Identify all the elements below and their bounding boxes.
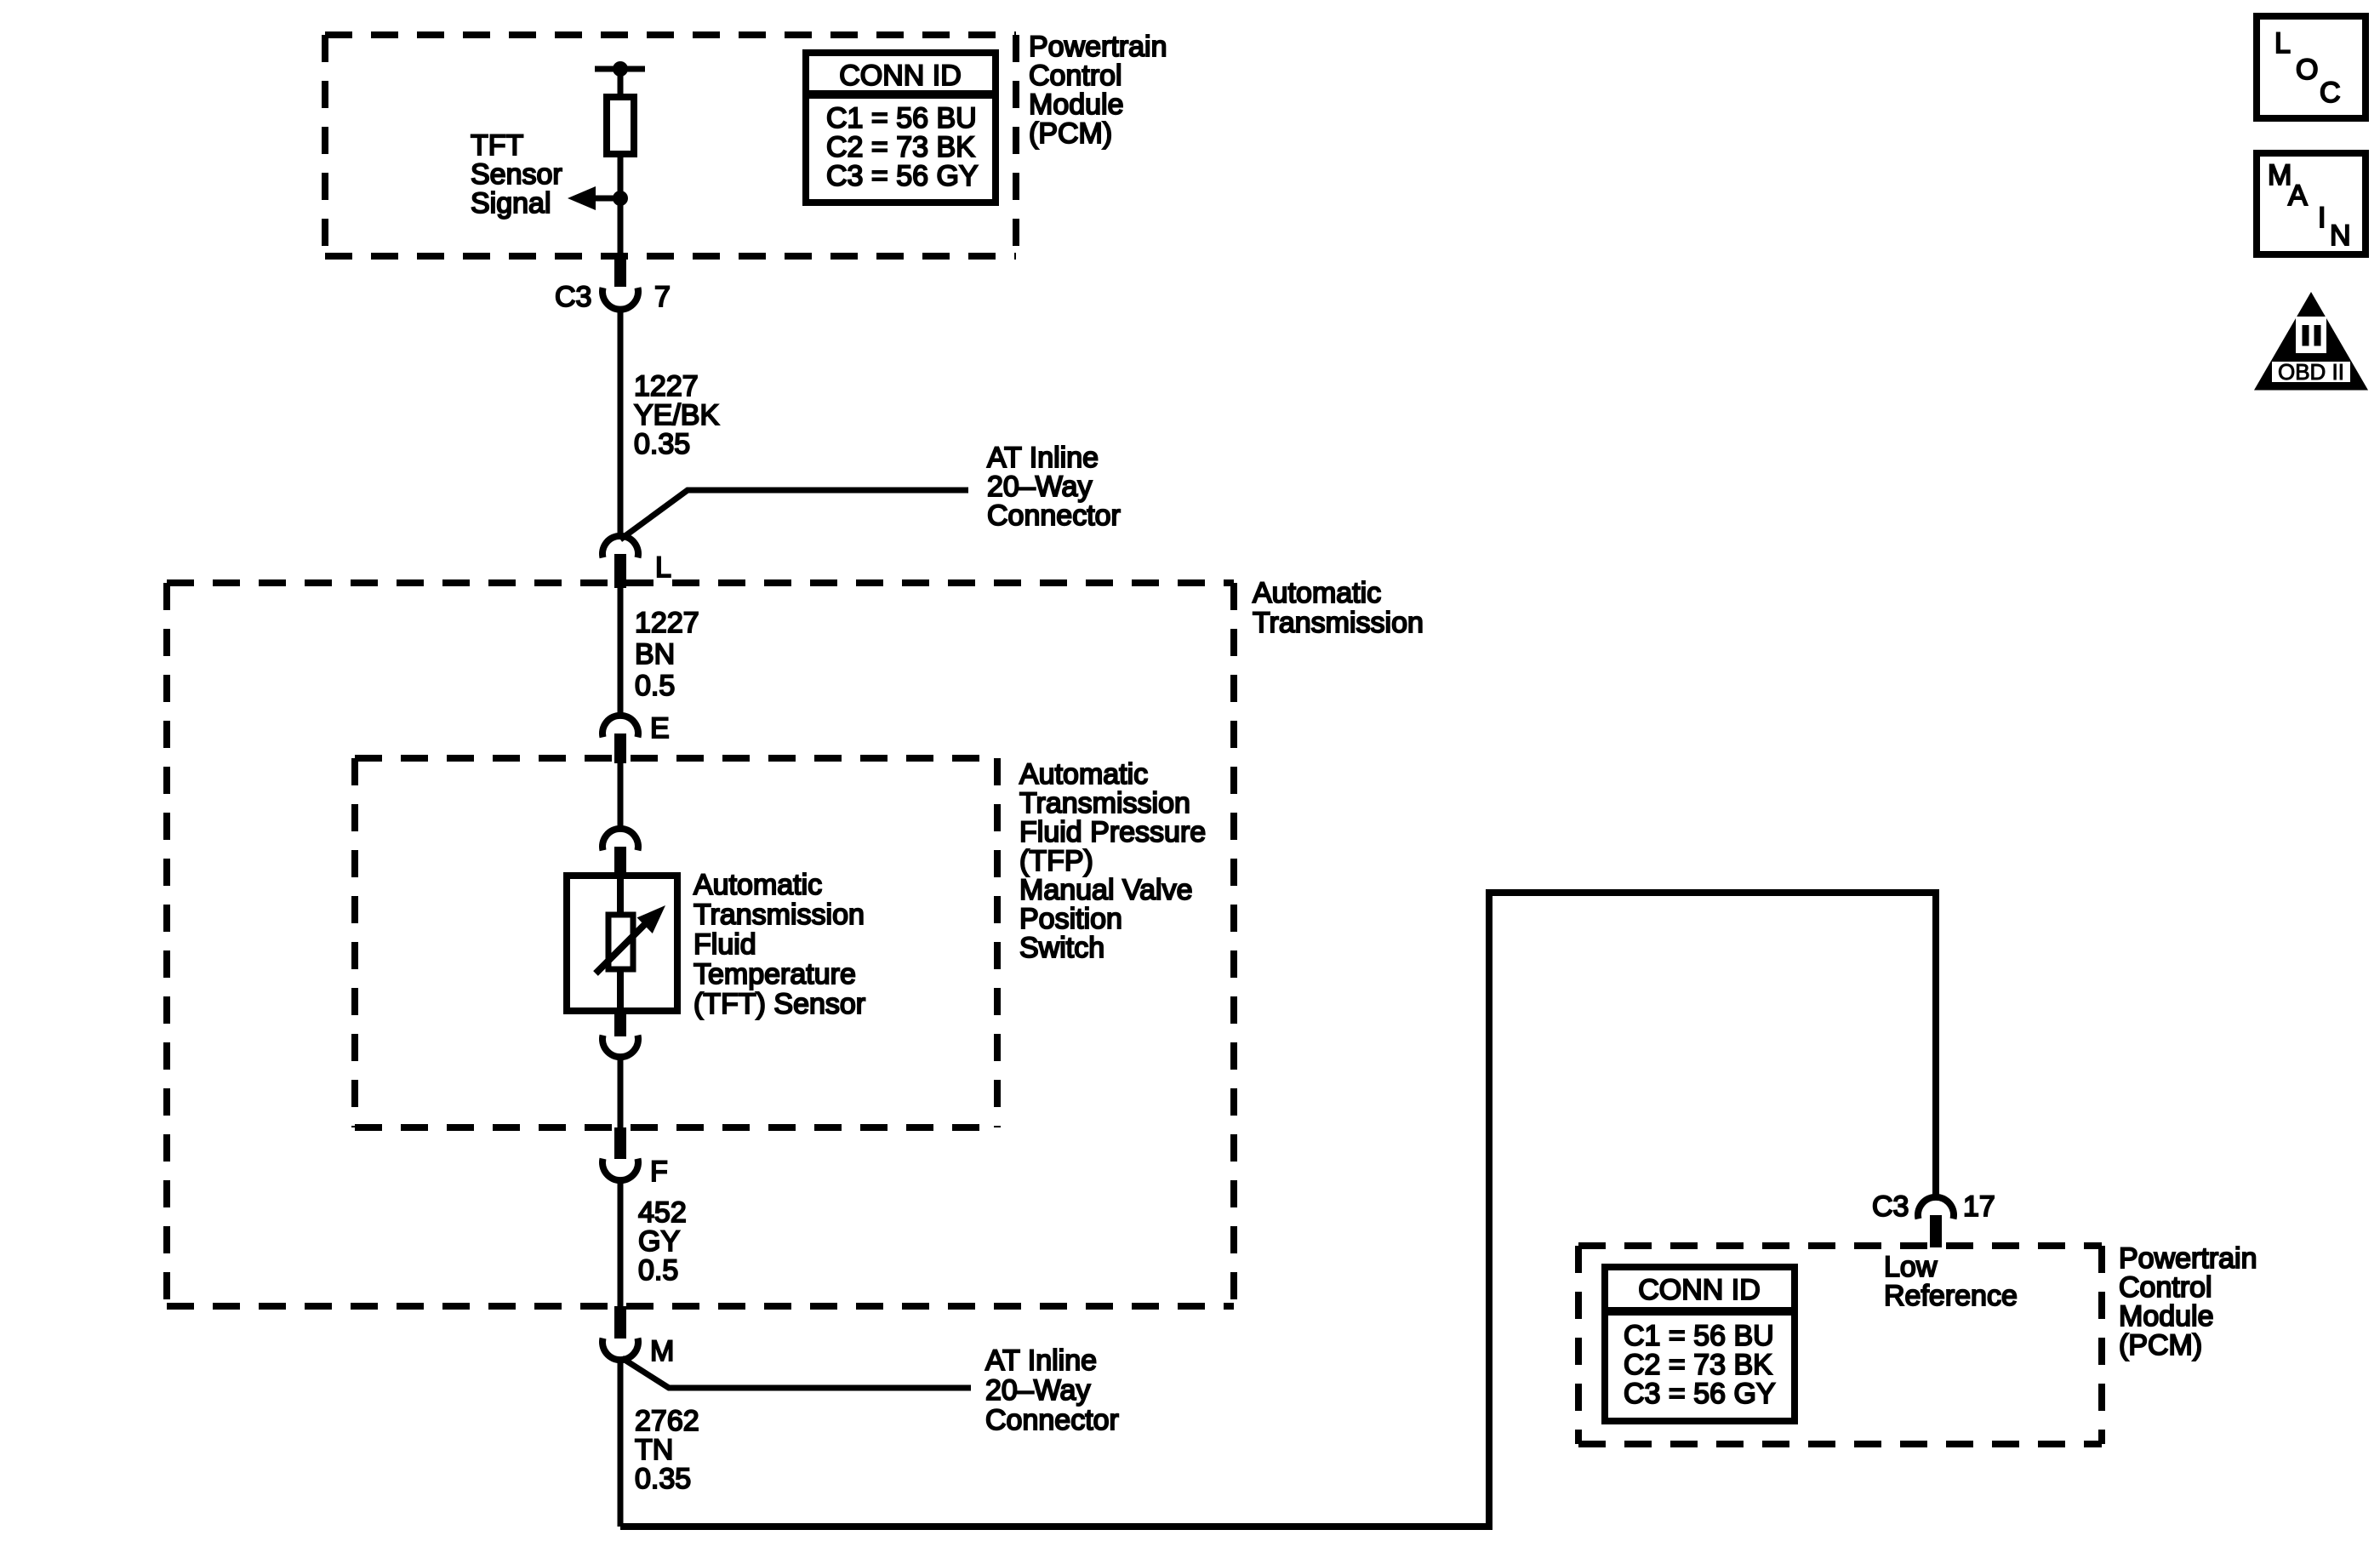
wire TFT sensor signal branch [592, 196, 620, 202]
svg-text:CONN ID: CONN ID [1638, 1274, 1761, 1306]
connector L (pin) [614, 554, 626, 588]
svg-text:Powertrain: Powertrain [1029, 31, 1167, 63]
label wire 452 GY 0.5 [638, 1196, 687, 1287]
thermistor element R [608, 915, 633, 969]
sensor terminal arc (top) [602, 829, 638, 851]
svg-text:Fluid: Fluid [693, 928, 756, 961]
svg-text:Powertrain: Powertrain [2119, 1242, 2257, 1275]
wire to F [618, 1058, 624, 1127]
svg-text:Module: Module [1029, 88, 1124, 121]
sensor terminal pin (top) [614, 847, 626, 877]
connector C3 pin 17 (pin) [1930, 1215, 1942, 1247]
svg-text:(TFP): (TFP) [1019, 845, 1093, 877]
sensor terminal pin (bottom) [614, 1011, 626, 1036]
svg-text:0.35: 0.35 [635, 1463, 691, 1495]
svg-text:AT Inline: AT Inline [985, 1344, 1097, 1377]
label wire 1227 YE/BK 0.35 [634, 370, 719, 460]
svg-text:1227: 1227 [634, 370, 699, 402]
svg-text:I: I [2318, 202, 2326, 234]
node junction dot [613, 191, 628, 206]
svg-text:Fluid Pressure: Fluid Pressure [1019, 816, 1206, 848]
svg-text:M: M [650, 1335, 674, 1367]
label wire 1227 BN 0.5 [635, 607, 699, 702]
connector E (arc dome) [602, 716, 638, 738]
PCM box bottom-right (dashed) [1578, 1246, 2102, 1444]
svg-text:Manual Valve: Manual Valve [1019, 874, 1193, 906]
svg-text:O: O [2296, 54, 2318, 86]
node junction dot [613, 61, 628, 77]
svg-text:A: A [2288, 180, 2308, 212]
arrowhead TFT sensor signal [568, 186, 596, 210]
svg-text:17: 17 [1963, 1190, 1995, 1223]
wire inside sensor [617, 876, 624, 915]
wire bottom run [620, 893, 1936, 1527]
svg-text:C3 = 56 GY: C3 = 56 GY [1624, 1378, 1776, 1410]
svg-text:C3: C3 [555, 281, 591, 313]
svg-text:C2 = 73 BK: C2 = 73 BK [1624, 1349, 1772, 1381]
svg-text:Connector: Connector [987, 499, 1121, 532]
svg-text:C2 = 73 BK: C2 = 73 BK [826, 131, 975, 163]
connector L (arc dome) [602, 536, 638, 558]
label Powertrain Control Module (PCM) bottom [2119, 1242, 2257, 1361]
label AT Inline 20-Way Connector (bottom) [985, 1344, 1119, 1436]
connector C3 pin 17 (arc dome) [1918, 1197, 1954, 1219]
label TFT Sensor Signal [471, 129, 562, 220]
svg-text:Position: Position [1019, 903, 1122, 935]
svg-text:GY: GY [638, 1225, 680, 1258]
svg-text:Control: Control [1029, 60, 1122, 92]
svg-text:AT Inline: AT Inline [987, 442, 1099, 474]
resistor (PCM pull-up) [607, 97, 634, 154]
CONN ID table bottom-right [1605, 1267, 1795, 1421]
svg-text:Transmission: Transmission [1019, 787, 1190, 819]
svg-text:Automatic: Automatic [1019, 758, 1148, 791]
svg-text:C: C [2320, 77, 2341, 109]
svg-text:BN: BN [635, 638, 675, 671]
svg-text:1227: 1227 [635, 607, 699, 639]
svg-text:Transmission: Transmission [693, 899, 865, 931]
label AT Inline 20-Way Connector (top) [987, 442, 1121, 532]
svg-text:TN: TN [635, 1434, 673, 1466]
connector C3 pin 7 (pin) [614, 256, 626, 287]
PCM box top-left (dashed) [325, 35, 1016, 256]
svg-text:(TFT) Sensor: (TFT) Sensor [693, 988, 865, 1020]
svg-text:TFT: TFT [471, 129, 523, 162]
label Low Reference [1884, 1251, 2018, 1312]
svg-text:Automatic: Automatic [1253, 577, 1381, 609]
LOC legend box [2257, 16, 2366, 118]
OBD II symbol [2254, 292, 2368, 391]
svg-text:C1 = 56 BU: C1 = 56 BU [826, 102, 977, 134]
svg-text:Low: Low [1884, 1251, 1938, 1283]
svg-text:0.35: 0.35 [634, 428, 690, 460]
wire 2762 TN below M [618, 1361, 624, 1527]
svg-text:CONN ID: CONN ID [839, 60, 962, 92]
TFT sensor box [567, 876, 677, 1011]
svg-text:Reference: Reference [1884, 1280, 2018, 1312]
wire into TFT sensor [618, 763, 624, 826]
svg-text:Connector: Connector [985, 1404, 1119, 1436]
connector C3 pin 7 (arc) [602, 288, 638, 310]
leader line AT inline connector (top) [620, 490, 968, 539]
connector F (arc) [602, 1159, 638, 1181]
label TFP Manual Valve Position Switch [1019, 758, 1206, 964]
wire 452 GY [618, 1181, 624, 1306]
wire [618, 154, 624, 256]
svg-text:C3: C3 [1872, 1190, 1909, 1223]
connector F (pin) [614, 1127, 626, 1159]
connector M (pin) [614, 1306, 626, 1339]
svg-text:F: F [650, 1156, 668, 1188]
svg-text:L: L [655, 551, 671, 584]
Automatic Transmission box (dashed) [167, 583, 1234, 1306]
svg-text:0.5: 0.5 [638, 1254, 678, 1287]
svg-text:Temperature: Temperature [693, 958, 856, 990]
svg-text:20–Way: 20–Way [985, 1374, 1090, 1407]
wire 1227 BN [618, 588, 624, 713]
connector M (arc) [602, 1339, 638, 1361]
wire 1227 YE/BK [618, 308, 624, 539]
svg-text:N: N [2330, 220, 2351, 252]
svg-text:Control: Control [2119, 1271, 2212, 1304]
CONN ID table top-left [806, 53, 996, 203]
svg-text:Sensor: Sensor [471, 158, 562, 191]
connector E (pin) [614, 733, 626, 763]
svg-text:(PCM): (PCM) [1029, 117, 1112, 150]
svg-text:OBD II: OBD II [2278, 359, 2344, 385]
svg-text:Signal: Signal [471, 187, 551, 220]
svg-text:2762: 2762 [635, 1405, 699, 1437]
MAIN legend box [2257, 153, 2366, 254]
label Powertrain Control Module (PCM) top [1029, 31, 1167, 150]
svg-text:Module: Module [2119, 1300, 2214, 1333]
svg-text:20–Way: 20–Way [987, 471, 1092, 503]
svg-text:C3 = 56 GY: C3 = 56 GY [826, 160, 979, 192]
svg-text:Switch: Switch [1019, 932, 1104, 964]
svg-text:Automatic: Automatic [693, 869, 822, 901]
svg-text:E: E [650, 712, 670, 745]
svg-text:C1 = 56 BU: C1 = 56 BU [1624, 1320, 1774, 1352]
svg-text:L: L [2274, 27, 2291, 60]
label wire 2762 TN 0.35 [635, 1405, 699, 1495]
label Automatic Transmission [1253, 577, 1424, 639]
svg-text:Transmission: Transmission [1253, 607, 1424, 639]
svg-text:0.5: 0.5 [635, 670, 675, 702]
svg-text:YE/BK: YE/BK [634, 399, 719, 431]
wire internal T-bar [595, 66, 645, 72]
TFP switch box (dashed) [355, 758, 997, 1127]
wire inside sensor [617, 969, 624, 1011]
wire [618, 69, 624, 97]
svg-text:452: 452 [638, 1196, 687, 1229]
sensor terminal arc (bottom) [602, 1036, 638, 1058]
svg-text:(PCM): (PCM) [2119, 1329, 2202, 1361]
svg-text:7: 7 [654, 281, 671, 313]
leader line AT inline connector (bottom) [622, 1358, 971, 1388]
label TFT Sensor [693, 869, 865, 1020]
thermistor arrow [596, 917, 652, 973]
